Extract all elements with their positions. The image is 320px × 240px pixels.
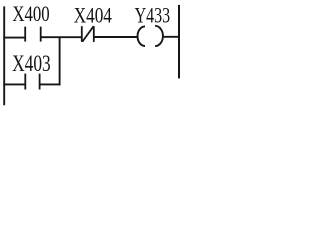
coil Y433 xyxy=(138,26,163,46)
wire contact X400 to contact X404 xyxy=(41,36,82,38)
wire coil Y433 to right rail xyxy=(162,36,180,38)
svg-text:X404: X404 xyxy=(74,3,112,28)
contact X403 normally open xyxy=(25,74,39,90)
wire junction riser to main rung xyxy=(59,37,61,86)
left rail xyxy=(3,6,5,105)
wire left rail to contact X403 (parallel branch) xyxy=(3,83,25,85)
contact X400 normally open xyxy=(25,27,41,42)
wire contact X403 to junction xyxy=(40,83,61,85)
wire contact X404 to coil Y433 xyxy=(94,36,138,38)
svg-text:X403: X403 xyxy=(12,52,51,77)
contact X404 normally closed xyxy=(82,26,94,42)
right rail xyxy=(178,5,180,79)
svg-text:X400: X400 xyxy=(12,2,49,27)
wire left rail to contact X400 xyxy=(3,37,25,39)
svg-text:Y433: Y433 xyxy=(135,4,171,28)
